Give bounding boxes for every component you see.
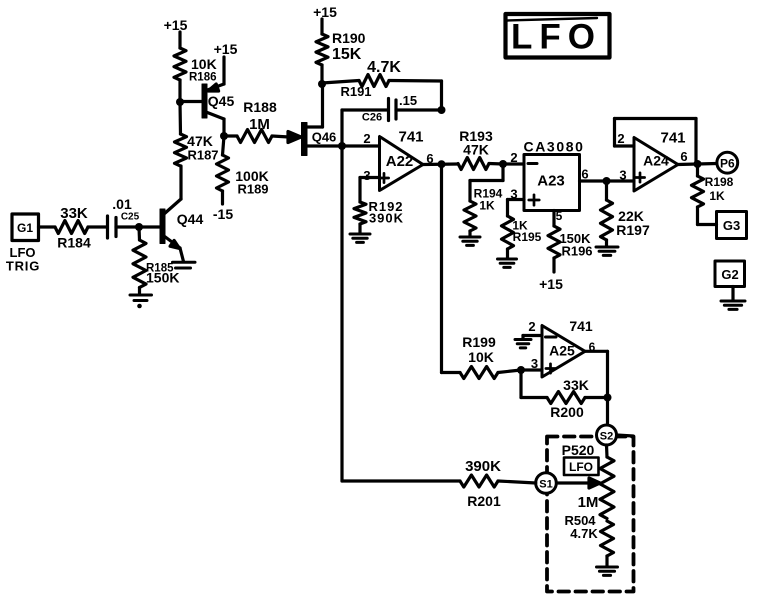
wire A25 pin 2 to ground (523, 336, 542, 340)
wire to A22 pin 2 (342, 131, 380, 146)
resistor R184 33K (55, 205, 91, 251)
resistor R195 1K (502, 200, 542, 259)
power +15 at Q45 emitter (214, 41, 238, 84)
title box LFO (506, 14, 610, 58)
wire R199 feed (442, 371, 461, 374)
svg-text:R188: R188 (243, 99, 277, 115)
svg-text:33K: 33K (60, 205, 88, 222)
svg-text:R190: R190 (332, 30, 366, 46)
wire A23 pin 6 to A24 pin 3 (580, 167, 635, 183)
svg-text:R197: R197 (616, 222, 650, 238)
svg-text:33K: 33K (563, 377, 589, 393)
op-amp A25 741 (528, 318, 595, 377)
ground below R197 (596, 247, 618, 255)
svg-text:A24: A24 (643, 153, 669, 169)
svg-text:P520: P520 (562, 442, 595, 458)
svg-text:Q44: Q44 (177, 211, 204, 227)
connector G1 (LFO trig input) (12, 214, 39, 241)
power +15 top left (164, 17, 188, 48)
svg-text:741: 741 (660, 130, 685, 147)
svg-text:6: 6 (680, 149, 687, 164)
svg-text:C26: C26 (362, 112, 382, 124)
wire R184 to C25 (88, 225, 106, 228)
ground at A25 pin 2 (515, 340, 531, 348)
svg-text:LFO: LFO (511, 18, 602, 57)
svg-text:S2: S2 (600, 431, 613, 443)
svg-text:C25: C25 (121, 212, 140, 223)
svg-text:Q46: Q46 (312, 130, 337, 145)
op-amp A22 741 (363, 129, 433, 191)
resistor R201 390K (460, 458, 536, 509)
svg-text:R186: R186 (189, 72, 217, 84)
wire A22 output (423, 162, 458, 166)
svg-text:741: 741 (569, 318, 593, 334)
svg-text:47K: 47K (463, 142, 489, 158)
op-amp A24 741 (617, 130, 687, 192)
svg-text:5: 5 (556, 209, 563, 223)
node C26 right / feedback column (438, 106, 446, 114)
ground at Q44 emitter (173, 262, 196, 268)
svg-text:R195: R195 (513, 230, 542, 244)
ground below R185 (130, 295, 152, 308)
wire C25 to node (116, 225, 139, 228)
svg-text:+15: +15 (539, 276, 563, 292)
transistor Q46 (302, 84, 343, 156)
node A (R186/R187/Q45 base) (176, 98, 184, 106)
ground below R192 (350, 234, 370, 242)
resistor R197 22K (601, 181, 650, 246)
ground below R504 (597, 567, 618, 575)
power +15 below R196 (539, 276, 563, 292)
resistor R198 1K (692, 164, 734, 225)
node A22 output (438, 160, 446, 168)
resistor R194 1K (464, 164, 503, 236)
node Q46 source / A22 pin 2 (338, 142, 346, 150)
svg-text:R200: R200 (550, 404, 584, 420)
wire R191 to A22 output column (389, 81, 442, 111)
resistor R187 47K (175, 133, 219, 166)
label P520 (562, 442, 595, 458)
svg-text:R198: R198 (705, 175, 734, 189)
wire A24 output (678, 164, 717, 165)
resistor R191 4.7K (322, 59, 401, 99)
svg-text:3: 3 (619, 168, 626, 183)
ground below R195 (498, 259, 517, 267)
resistor R193 47K (458, 128, 503, 170)
wire A25 output down to S2 (585, 351, 608, 425)
svg-text:390K: 390K (369, 211, 404, 226)
module P520 dashed outline (547, 437, 634, 592)
svg-text:150K: 150K (146, 270, 179, 286)
wire S2 to box corner (617, 435, 634, 436)
svg-text:.15: .15 (399, 93, 417, 108)
svg-text:LFO: LFO (569, 460, 593, 474)
svg-text:G1: G1 (17, 221, 33, 235)
potentiometer 1M (578, 445, 614, 519)
connector P6 output (717, 152, 738, 173)
IC A23 CA3080 (524, 139, 585, 211)
node A24 output (694, 160, 702, 168)
resistor R185 150K (133, 227, 179, 293)
capacitor C26 .15 (342, 93, 442, 146)
wire A24 feedback loop pin 2 to output (615, 119, 697, 165)
svg-text:A23: A23 (537, 173, 565, 190)
svg-text:R189: R189 (237, 182, 268, 197)
node R193/R194/A23 pin 2 (499, 160, 507, 168)
wire output column down to R199 (440, 164, 443, 372)
connector S2 (597, 425, 617, 445)
svg-text:4.7K: 4.7K (570, 526, 598, 541)
node C (R190/R191/Q46 drain) (318, 80, 326, 88)
connector G2 (715, 261, 745, 300)
resistor R186 10K (174, 48, 217, 102)
ground below G2 (721, 301, 745, 309)
resistor R190 15K (316, 30, 366, 84)
svg-text:R196: R196 (561, 244, 592, 259)
svg-text:2: 2 (510, 150, 517, 165)
svg-text:741: 741 (398, 129, 423, 146)
wire node to A23 pin 2 (503, 150, 524, 165)
wire node A to Q45 base (180, 100, 202, 103)
svg-text:TRIG: TRIG (6, 259, 40, 274)
svg-text:1M: 1M (578, 494, 599, 511)
node A25 pin 3 (517, 366, 525, 374)
ground below R194 (460, 237, 480, 245)
svg-text:A25: A25 (549, 343, 575, 359)
wire Q44 collector to R187 (179, 166, 182, 199)
svg-text:R201: R201 (467, 493, 501, 509)
svg-text:R199: R199 (462, 334, 496, 350)
svg-text:G3: G3 (723, 218, 740, 233)
resistor R188 1M (224, 99, 289, 143)
svg-text:2: 2 (617, 131, 624, 146)
resistor R189 100K (217, 136, 269, 204)
wire node to Q44 base (139, 225, 160, 228)
svg-text:6: 6 (581, 167, 588, 182)
node at C25/R185/Q44 base (135, 223, 143, 231)
svg-text:Q45: Q45 (208, 93, 235, 109)
resistor R199 10K (460, 334, 521, 379)
svg-text:P6: P6 (720, 156, 735, 170)
connector G3 (717, 212, 747, 239)
svg-text:A22: A22 (386, 153, 414, 170)
svg-text:10K: 10K (468, 349, 494, 365)
wire R187 to node A (178, 102, 182, 134)
power -15 below R189 (213, 206, 233, 222)
node A23 out / R197 (603, 177, 611, 185)
svg-text:+15: +15 (214, 41, 238, 57)
svg-text:1K: 1K (709, 189, 725, 203)
svg-text:S1: S1 (539, 479, 552, 491)
svg-text:3: 3 (531, 356, 538, 371)
connector S1 (536, 473, 557, 494)
wire A23 pin 5 (554, 209, 563, 226)
svg-text:-15: -15 (213, 206, 233, 222)
node B (Q45 collector/R188/R189) (220, 132, 228, 140)
label LFO panel box (564, 458, 599, 476)
wire A23 pin 3 (508, 187, 525, 202)
svg-text:2: 2 (363, 131, 370, 146)
capacitor C25 .01 (108, 196, 140, 238)
power +15 above R190 (313, 4, 337, 34)
svg-text:1M: 1M (249, 116, 270, 133)
svg-text:R187: R187 (187, 148, 218, 163)
svg-text:+15: +15 (313, 4, 337, 20)
resistor R196 150K (548, 226, 593, 272)
wire Q46 source column to R201 (342, 146, 460, 481)
svg-text:3: 3 (510, 187, 517, 202)
label LFO TRIG (6, 245, 40, 274)
resistor R504 4.7K (564, 513, 613, 566)
svg-text:+15: +15 (164, 17, 188, 33)
svg-text:10K: 10K (191, 56, 217, 72)
svg-text:R191: R191 (340, 84, 371, 99)
wire node to A25 pin 3 (521, 356, 542, 371)
svg-text:4.7K: 4.7K (367, 59, 401, 76)
resistor R200 33K feedback (521, 370, 608, 420)
node R200/output column (604, 394, 612, 402)
svg-text:3: 3 (363, 168, 370, 183)
wiper arrow from S1 (556, 478, 600, 488)
transistor Q45 (202, 84, 234, 136)
wire G1 to R184 (39, 225, 56, 228)
svg-text:1K: 1K (479, 199, 495, 213)
svg-text:2: 2 (528, 319, 535, 334)
transistor Q44 (160, 199, 203, 262)
svg-text:CA3080: CA3080 (524, 139, 585, 155)
svg-text:15K: 15K (332, 46, 362, 63)
resistor R192 390K at A22 pin 3 (354, 178, 404, 234)
svg-text:G2: G2 (721, 267, 738, 282)
svg-text:390K: 390K (465, 458, 501, 475)
arrow into Q46 gate (288, 132, 301, 143)
svg-text:R184: R184 (57, 235, 91, 251)
svg-text:.01: .01 (112, 196, 132, 212)
